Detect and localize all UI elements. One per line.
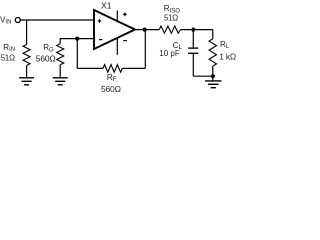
svg-text:560Ω: 560Ω: [101, 84, 121, 94]
svg-text:51Ω: 51Ω: [1, 53, 15, 62]
svg-text:560Ω: 560Ω: [36, 54, 56, 64]
svg-text:X1: X1: [101, 1, 112, 11]
svg-text:51Ω: 51Ω: [164, 14, 178, 23]
svg-text:1 kΩ: 1 kΩ: [219, 51, 236, 61]
svg-text:10 pF: 10 pF: [159, 49, 180, 58]
